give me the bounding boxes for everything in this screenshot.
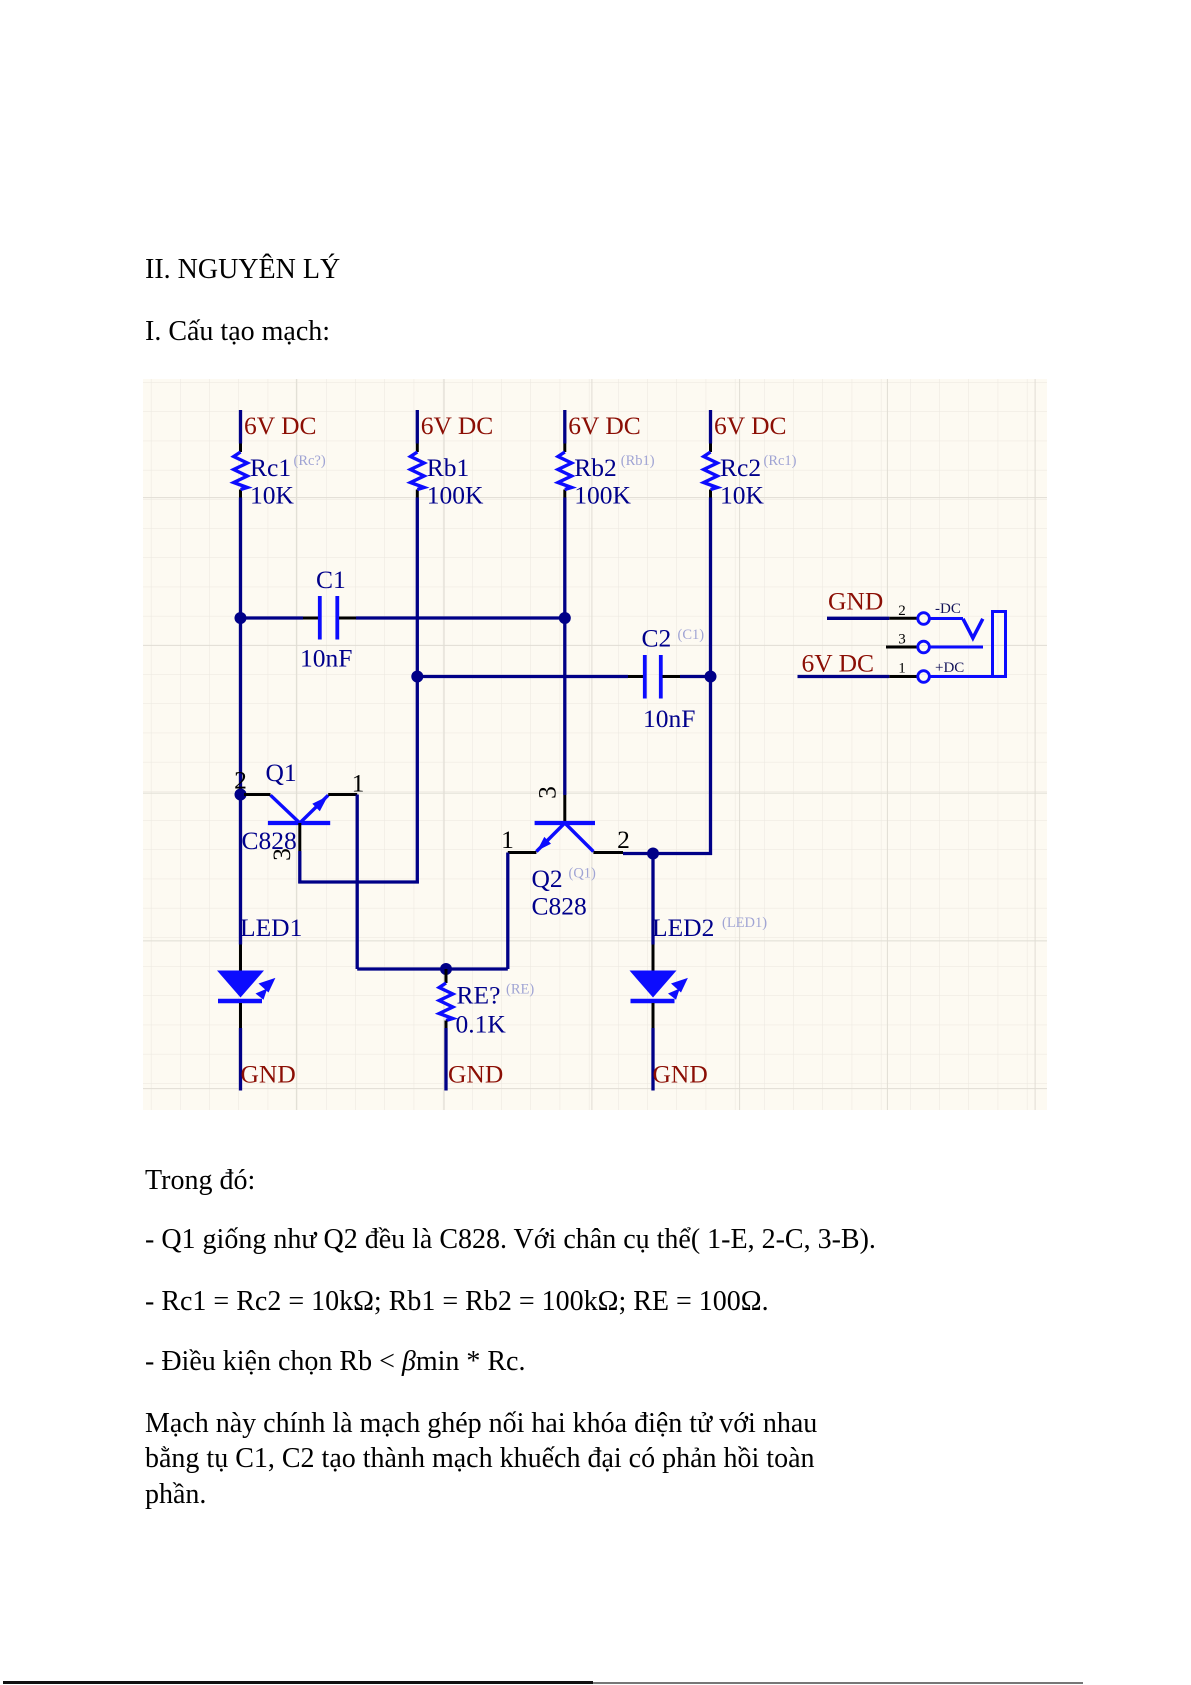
wire C2 row left (col2 to cap) xyxy=(417,675,628,678)
LED1 bottom pin xyxy=(239,1003,242,1028)
transistor Q1 base bar xyxy=(268,821,330,825)
resistor Rc1 pin stubs xyxy=(239,444,242,453)
transistor Q2 pin 2 stub xyxy=(593,851,623,854)
transistor Q1 collector diagonal xyxy=(271,795,300,823)
svg-text:1: 1 xyxy=(501,825,514,854)
svg-text:Rb1: Rb1 xyxy=(427,453,470,482)
capacitor C2 plates xyxy=(643,655,647,699)
capacitor C2 right pin xyxy=(663,675,681,678)
wire 6V DC column 2 top xyxy=(416,410,419,444)
wire pin1 to jack body xyxy=(931,675,1006,678)
svg-text:Rc2: Rc2 xyxy=(720,453,761,482)
wire pin3 to sleeve xyxy=(931,646,984,649)
svg-text:2: 2 xyxy=(898,603,906,619)
major grid lines xyxy=(143,379,1047,1110)
svg-text:-DC: -DC xyxy=(935,601,961,617)
svg-text:6V DC: 6V DC xyxy=(714,411,787,440)
svg-text:LED2: LED2 xyxy=(652,913,714,942)
junction node Q1 collector xyxy=(235,789,247,801)
svg-text:Rb2: Rb2 xyxy=(574,453,617,482)
transistor Q1 pin 2 stub xyxy=(244,793,271,796)
LED1 light arrow b xyxy=(256,989,268,1000)
svg-text:6V DC: 6V DC xyxy=(802,649,875,678)
svg-text:+DC: +DC xyxy=(935,660,964,676)
svg-text:1: 1 xyxy=(898,661,906,677)
resistor RE bottom pin xyxy=(445,1021,448,1029)
svg-text:(Rb1): (Rb1) xyxy=(621,453,655,469)
svg-text:C1: C1 xyxy=(316,565,346,594)
svg-text:3: 3 xyxy=(532,786,561,799)
wire Q1 emitter to RE node xyxy=(357,967,446,970)
wire col1 resistor to C1 node xyxy=(239,498,242,619)
jack pin 3 circle xyxy=(918,641,930,653)
LED1 light arrow a xyxy=(259,978,276,993)
svg-text:3: 3 xyxy=(898,632,906,648)
svg-text:6V DC: 6V DC xyxy=(568,411,641,440)
svg-text:6V DC: 6V DC xyxy=(244,411,317,440)
wire C1 row right (cap to col3) xyxy=(356,616,565,619)
transistor Q1 base pin stub xyxy=(298,823,301,851)
svg-text:Rc1: Rc1 xyxy=(250,453,291,482)
transistor Q1 emitter arrow xyxy=(312,796,328,811)
resistor Rb2 zigzag xyxy=(558,452,572,490)
bottom gray bar xyxy=(593,1682,1083,1684)
resistor Rb1 pin stubs xyxy=(416,444,419,453)
wire Q1 base horizontal feedback xyxy=(298,880,418,883)
capacitor C1 left pin xyxy=(303,617,318,620)
svg-text:100K: 100K xyxy=(574,481,631,510)
wire 6V DC column 4 top xyxy=(709,410,712,444)
svg-text:C828: C828 xyxy=(532,892,587,921)
wire col2 resistor down to C2 node (crosses C1 row) xyxy=(416,498,419,677)
transistor Q1 emitter diagonal xyxy=(300,795,328,823)
svg-text:GND: GND xyxy=(448,1060,503,1089)
wire GND net xyxy=(827,617,889,620)
LED2 cathode bar xyxy=(631,999,675,1004)
svg-text:1: 1 xyxy=(352,769,365,798)
svg-text:GND: GND xyxy=(828,587,883,616)
resistor Rb2 pin stubs xyxy=(563,444,566,453)
schematic background xyxy=(143,379,1047,1110)
junction node C2-col4 xyxy=(705,671,717,683)
wire LED2 to GND xyxy=(651,1028,654,1091)
wire C2 row right (cap to col4) xyxy=(680,675,711,678)
capacitor C1 right pin xyxy=(339,617,356,620)
schematic SVG inserted here xyxy=(143,379,1047,1110)
svg-text:100K: 100K xyxy=(427,481,484,510)
transistor Q1 pin 1 stub xyxy=(328,793,357,796)
svg-text:2: 2 xyxy=(617,825,630,854)
wire LED1 to GND xyxy=(239,1028,242,1091)
wire col4 resistor down to C2 node xyxy=(709,498,712,677)
resistor Rc2 zigzag xyxy=(704,452,718,490)
LED2 bottom pin xyxy=(652,1003,655,1028)
junction node LED2 top xyxy=(647,848,659,860)
LED2 light arrow a xyxy=(671,978,688,993)
jack pin 2 circle xyxy=(918,613,930,625)
resistor Rc1 zigzag xyxy=(234,452,248,490)
LED1 top pin xyxy=(239,945,242,972)
transistor Q2 base pin stub xyxy=(563,795,566,822)
wire 6VDC net xyxy=(798,675,890,678)
svg-text:2: 2 xyxy=(234,766,247,795)
transistor Q2 base bar xyxy=(535,821,595,825)
wire Q2 pin2 to LED2 node xyxy=(623,852,653,855)
junction node C1-col1 xyxy=(235,612,247,624)
wire Q1 emitter down xyxy=(356,795,359,970)
transistor Q2 pin 1 stub xyxy=(508,851,537,854)
resistor RE zigzag xyxy=(439,983,453,1021)
svg-text:RE?: RE? xyxy=(457,981,501,1010)
jack pin 2 stub xyxy=(889,617,917,620)
jack pin 1 circle xyxy=(918,671,930,683)
wire col1 C1 node to Q1 collector node xyxy=(239,618,242,795)
LED2 top pin xyxy=(652,945,655,972)
bottom black bar xyxy=(3,1681,593,1684)
svg-text:(RE): (RE) xyxy=(506,982,534,998)
resistor RE top pin xyxy=(445,969,448,983)
svg-text:6V DC: 6V DC xyxy=(421,411,494,440)
capacitor C2 left pin xyxy=(628,675,643,678)
wire col4 C2 node down to LED2 branch xyxy=(709,677,712,856)
LED1 triangle xyxy=(217,971,264,998)
wire col3 C1 node down to Q2 base xyxy=(563,618,566,795)
junction node C2-col2 xyxy=(411,671,423,683)
jack switch V contact xyxy=(963,619,983,638)
wire col4 corner to LED2 node xyxy=(653,852,712,855)
svg-text:Q2: Q2 xyxy=(532,864,563,893)
capacitor C1 plates xyxy=(318,596,322,640)
junction node C1-col3 xyxy=(559,612,571,624)
LED2 triangle xyxy=(630,971,677,998)
transistor Q2 collector diagonal xyxy=(565,823,594,852)
svg-text:(Q1): (Q1) xyxy=(569,866,597,882)
svg-text:Q1: Q1 xyxy=(266,758,297,787)
resistor Rc2 pin stubs xyxy=(709,444,712,453)
svg-text:10K: 10K xyxy=(250,481,295,510)
heading I xyxy=(145,318,330,346)
body text xyxy=(145,1167,255,1195)
jack body sleeve rect xyxy=(993,612,1006,677)
svg-text:10nF: 10nF xyxy=(300,644,352,673)
junction node RE top xyxy=(440,963,452,975)
LED2 top wire xyxy=(651,854,654,945)
svg-text:LED1: LED1 xyxy=(240,913,302,942)
svg-text:(LED1): (LED1) xyxy=(722,915,767,931)
LED1 cathode bar xyxy=(218,999,262,1004)
wire Q2 emitter to RE node xyxy=(446,967,508,970)
wire Q1 base down xyxy=(298,851,301,884)
heading II xyxy=(145,256,340,284)
jack pin 1 stub xyxy=(889,675,917,678)
svg-text:3: 3 xyxy=(267,848,296,861)
transistor Q2 emitter arrow xyxy=(537,837,551,851)
wire col1 Q1 node down to LED1 xyxy=(239,795,242,945)
LED2 light arrow b xyxy=(668,989,680,1000)
svg-text:(Rc1): (Rc1) xyxy=(764,453,797,469)
svg-text:(Rc?): (Rc?) xyxy=(294,453,326,469)
jack pin 3 stub xyxy=(886,646,917,649)
svg-text:10nF: 10nF xyxy=(643,704,695,733)
wire col3 resistor down to C1 node xyxy=(563,498,566,619)
svg-text:(C1): (C1) xyxy=(678,627,705,643)
resistor Rb1 zigzag xyxy=(411,452,425,490)
wire Q2 emitter down xyxy=(506,853,509,970)
wire RE to GND xyxy=(444,1028,447,1091)
svg-text:GND: GND xyxy=(241,1060,296,1089)
wire 6V DC column 1 top xyxy=(239,410,242,444)
wire 6V DC column 3 top xyxy=(563,410,566,444)
wire col2 C2 node down to Q1 base feedback xyxy=(416,677,419,884)
svg-text:0.1K: 0.1K xyxy=(456,1010,507,1039)
svg-text:GND: GND xyxy=(653,1060,708,1089)
transistor Q2 emitter diagonal xyxy=(536,823,564,852)
wire C1 row left (node to cap) xyxy=(241,616,304,619)
svg-text:10K: 10K xyxy=(720,481,765,510)
wire pin2 to switch xyxy=(931,617,964,620)
svg-text:C2: C2 xyxy=(642,624,672,653)
